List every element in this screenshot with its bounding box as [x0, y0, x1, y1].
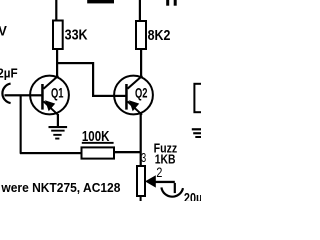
capacitor C3 20uF curved plate: [161, 187, 183, 196]
resistor R1 33K body: [53, 21, 63, 50]
ground (volume pot, cut at right edge): [192, 128, 201, 138]
svg-text:3: 3: [141, 150, 146, 165]
pot wiper arrow (pin 2): [145, 175, 156, 187]
svg-text:8K2: 8K2: [148, 28, 171, 44]
wire: right supply rail to R2: [139, 0, 141, 20]
svg-text:20µF: 20µF: [184, 190, 201, 201]
resistor R3 100K body: [82, 147, 115, 158]
svg-text:V: V: [0, 23, 7, 38]
wire: coupling vertical down to Q2 base: [92, 62, 94, 97]
wire: node A horizontal to coupling: [56, 62, 94, 64]
wire: R2 bottom to Q2 collector: [140, 50, 142, 77]
wire: node B vertical down to R3: [20, 95, 22, 154]
wire: R3 left lead from node B: [20, 152, 81, 154]
wire: wiper to C3 horizontal: [156, 181, 175, 183]
svg-text:2: 2: [156, 165, 162, 180]
svg-text:Q2: Q2: [135, 86, 148, 101]
wire: wiper down to C3: [174, 183, 176, 193]
wire: C1 to Q1 base: [5, 94, 42, 96]
wire: into Q2 base: [92, 95, 127, 97]
wire: left supply rail to R1: [55, 0, 57, 20]
capacitor C1 2.2uF curved plate (input, cut at left): [2, 84, 10, 104]
ground (Q1 emitter): [49, 126, 68, 140]
battery bar (negative supply plate, cut off at top): [87, 0, 114, 3]
label 100K underline: [82, 142, 114, 144]
wire: pot bottom lead (cut at bottom edge): [140, 197, 142, 201]
svg-text:33K: 33K: [65, 27, 88, 43]
svg-text:were NKT275, AC128: were NKT275, AC128: [0, 180, 120, 195]
wire: R1 bottom to node A (Q1 collector): [56, 50, 58, 77]
potentiometer VR1 Fuzz 1KB body: [137, 166, 145, 196]
wire: R3 right lead to Q2 emitter node: [115, 151, 140, 153]
svg-text:2.2µF: 2.2µF: [0, 66, 18, 81]
label fragment (two strokes, cut off at top edge): [166, 0, 177, 6]
svg-text:Q1: Q1: [51, 86, 64, 101]
wire: Q1 emitter to ground: [57, 114, 59, 126]
potentiometer VR2 volume body (cut at right edge): [194, 84, 206, 112]
transistor Q2: [114, 76, 153, 115]
resistor R2 8K2 body: [136, 21, 146, 49]
wire: Q2 emitter down to fuzz pot: [140, 114, 142, 166]
transistor Q1: [30, 76, 69, 115]
